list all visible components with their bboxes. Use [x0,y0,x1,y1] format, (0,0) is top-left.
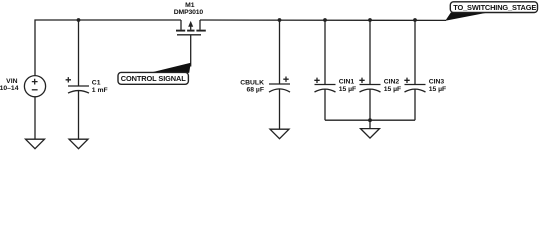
junction node bus ground [368,118,372,122]
voltage source VIN [24,76,45,97]
ground C1 [69,139,88,149]
wire CBULK top [279,20,281,84]
svg-text:CIN1: CIN1 [339,78,355,85]
off-page flag box CONTROL SIGNAL [118,72,188,84]
svg-text:TO_SWITCHING_STAGE: TO_SWITCHING_STAGE [453,3,536,12]
plus sign of VIN [32,79,38,85]
junction node C1 tap [77,18,81,22]
junction node CIN1 tap [323,18,327,22]
capacitor CBULK [269,77,290,93]
wire CIN3 bottom [414,89,416,120]
wire ground stub [369,120,371,128]
svg-text:15 µF: 15 µF [339,86,357,93]
svg-text:DMP3010: DMP3010 [174,9,204,16]
svg-text:C1: C1 [92,79,101,86]
svg-text:CONTROL SIGNAL: CONTROL SIGNAL [121,74,187,83]
off-page flag box TO_SWITCHING_STAGE [450,2,537,13]
off-page flag wedge TO_SWITCHING_STAGE [445,13,486,21]
junction node CIN3 tap [413,18,417,22]
capacitor CIN3 [404,78,425,92]
ground CBULK [270,129,289,139]
wire CBULK bottom [279,89,281,129]
wire CIN2 bottom [369,89,371,120]
minus sign of VIN [32,89,38,91]
svg-text:68 µF: 68 µF [246,86,264,93]
svg-text:10–14: 10–14 [0,85,19,92]
wire CIN bottom bus [325,119,415,121]
svg-text:15 µF: 15 µF [384,86,402,93]
wire top rail left segment [35,20,181,76]
transistor M1 (PMOS) [176,20,206,35]
capacitor CIN2 [359,78,380,92]
wire CIN1 bottom [324,89,326,120]
wire CIN1 top [324,20,326,85]
svg-text:CIN3: CIN3 [429,78,445,85]
wire CIN2 top [369,20,371,85]
junction node CBULK tap [278,18,282,22]
wire top rail right segment [200,19,446,21]
off-page flag wedge CONTROL SIGNAL [150,63,191,73]
svg-text:1 mF: 1 mF [92,87,108,94]
wire C1 bottom [78,91,80,140]
ground VIN [26,139,45,149]
wire gate to control flag [190,35,192,67]
wire CIN3 top [414,20,416,85]
junction node CIN2 tap [368,18,372,22]
wire VIN bottom [34,97,36,139]
svg-text:CIN2: CIN2 [384,78,400,85]
ground CIN [361,129,380,139]
svg-text:15 µF: 15 µF [429,86,447,93]
wire C1 top [78,20,80,86]
capacitor CIN1 [314,78,335,92]
capacitor C1 [66,77,89,93]
